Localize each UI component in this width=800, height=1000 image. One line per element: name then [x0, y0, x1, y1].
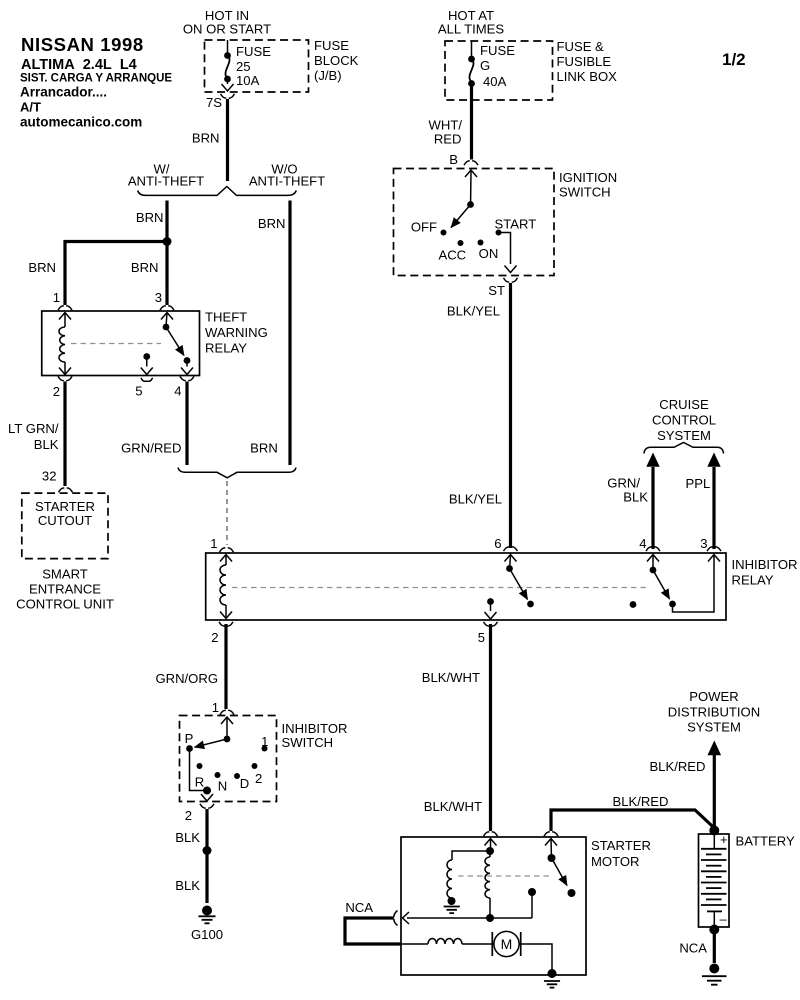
svg-text:DISTRIBUTION: DISTRIBUTION: [668, 705, 760, 720]
svg-text:6: 6: [494, 536, 501, 551]
wire BRN w/o anti-theft branch: [250, 201, 290, 466]
svg-text:automecanico.com: automecanico.com: [20, 115, 142, 130]
connector B: [449, 152, 478, 167]
svg-text:GRN/RED: GRN/RED: [121, 441, 181, 456]
starter motor armature inductor: [401, 939, 494, 945]
svg-text:2: 2: [211, 630, 218, 645]
svg-text:OFF: OFF: [411, 220, 437, 235]
svg-text:1: 1: [212, 700, 219, 715]
svg-text:START: START: [495, 217, 537, 232]
svg-text:Arrancador....: Arrancador....: [20, 85, 107, 100]
label STARTER CUTOUT: [35, 499, 95, 528]
svg-text:G: G: [480, 58, 490, 73]
svg-text:BLK/YEL: BLK/YEL: [447, 304, 500, 319]
svg-text:SIST. CARGA Y ARRANQUE: SIST. CARGA Y ARRANQUE: [20, 73, 172, 85]
svg-text:RELAY: RELAY: [732, 573, 774, 588]
svg-text:STARTER: STARTER: [35, 499, 95, 514]
wire GRN/ORG to inhibitor switch: [155, 624, 234, 715]
svg-text:+: +: [720, 832, 728, 847]
svg-text:NISSAN 1998: NISSAN 1998: [21, 34, 144, 55]
starter motor ground: [519, 944, 560, 988]
svg-text:BRN: BRN: [250, 441, 278, 456]
inhibitor switch contact 1: [261, 734, 268, 752]
wire PPL to cruise control: [686, 453, 721, 550]
svg-text:FUSIBLE: FUSIBLE: [557, 54, 612, 69]
label HOT IN ON OR START: [183, 8, 271, 37]
junction on BLK wire: [203, 846, 212, 855]
inhibitor relay pin 5 contact: [485, 598, 497, 619]
svg-text:THEFT: THEFT: [205, 310, 247, 325]
pin 3 label and connector: [155, 290, 174, 310]
ignition switch arm: [451, 170, 477, 228]
pin 4 connector: [174, 376, 194, 398]
svg-text:B: B: [449, 152, 458, 167]
svg-text:IGNITION: IGNITION: [559, 170, 617, 185]
wire BLK to ground: [175, 809, 207, 903]
brace split W/ and W/O anti-theft: [128, 162, 325, 196]
battery ground: [702, 964, 727, 985]
svg-text:CRUISE: CRUISE: [659, 397, 709, 412]
brace cruise control: [644, 443, 724, 454]
svg-text:BRN: BRN: [258, 216, 286, 231]
svg-text:1: 1: [210, 536, 217, 551]
title text NISSAN 1998: [20, 34, 172, 130]
inhibitor switch contact D: [234, 773, 249, 791]
svg-text:FUSE: FUSE: [480, 43, 515, 58]
fuse block (J/B) dashed box: [205, 40, 309, 92]
label IGNITION SWITCH: [559, 170, 617, 200]
svg-text:A/T: A/T: [20, 100, 41, 115]
svg-text:–: –: [720, 912, 728, 927]
svg-text:BLK: BLK: [175, 830, 200, 845]
svg-text:5: 5: [478, 630, 485, 645]
svg-text:ST: ST: [488, 283, 505, 298]
svg-text:3: 3: [155, 290, 162, 305]
wire BLK/RED starter to battery: [551, 794, 714, 831]
starter solenoid plunger line: [403, 888, 537, 924]
svg-text:BLK: BLK: [623, 490, 648, 505]
fuse 25 10A: [222, 40, 272, 91]
svg-text:2: 2: [255, 771, 262, 786]
svg-text:RED: RED: [434, 132, 462, 147]
junction node: [163, 237, 172, 246]
wire WHT/RED to ignition switch: [429, 84, 472, 160]
connector ST: [488, 278, 517, 298]
svg-text:STARTER: STARTER: [591, 838, 651, 853]
starter motor box: [401, 837, 586, 975]
brace merge GRN/RED and BRN: [178, 468, 296, 478]
svg-text:BLK/RED: BLK/RED: [612, 794, 668, 809]
inhibitor switch contact P: [185, 731, 194, 752]
starter switch: [545, 839, 576, 898]
svg-text:BRN: BRN: [28, 260, 56, 275]
wire BLK/YEL to inhibitor relay pin 6: [447, 283, 511, 548]
wire START to ST terminal: [499, 233, 517, 273]
ignition contact ON: [478, 240, 499, 262]
label THEFT WARNING RELAY: [205, 310, 268, 356]
wire NCA from battery: [679, 930, 714, 964]
wire BRN with anti-theft branch: [136, 201, 167, 306]
svg-text:LT GRN/: LT GRN/: [8, 421, 59, 436]
svg-text:SMART: SMART: [42, 567, 88, 582]
wire GRN/RED from theft relay pin 4: [121, 382, 187, 466]
svg-text:SWITCH: SWITCH: [282, 735, 334, 750]
svg-text:PPL: PPL: [686, 476, 711, 491]
connector 7S: [206, 94, 235, 110]
ignition switch dashed box: [394, 169, 555, 276]
svg-text:LINK BOX: LINK BOX: [557, 69, 618, 84]
starter hold-in coil: [485, 851, 494, 922]
connector starter motor S terminal: [484, 832, 498, 836]
svg-text:ALTIMA 2.4L L4: ALTIMA 2.4L L4: [21, 57, 137, 73]
svg-text:1: 1: [261, 734, 268, 749]
inhibitor relay spare contact dot: [630, 601, 637, 608]
fuse & fusible link box dashed box: [445, 41, 553, 100]
battery: [699, 832, 730, 927]
label POWER DISTRIBUTION SYSTEM: [668, 689, 760, 735]
wire BLK/WHT inhibitor relay pin 5 to starter: [422, 624, 491, 831]
svg-text:POWER: POWER: [689, 689, 738, 704]
fusible link G 40A: [468, 41, 515, 89]
inhibitor relay switch pins 4-3: [647, 555, 720, 613]
svg-text:CONTROL: CONTROL: [652, 413, 716, 428]
battery bottom junction: [709, 925, 719, 935]
label HOT AT ALL TIMES: [438, 8, 504, 37]
svg-text:FUSE &: FUSE &: [557, 39, 605, 54]
svg-text:R: R: [195, 775, 204, 790]
svg-text:D: D: [240, 776, 249, 791]
label CRUISE CONTROL SYSTEM: [652, 397, 716, 443]
svg-text:GRN/: GRN/: [607, 476, 640, 491]
svg-text:4: 4: [174, 384, 181, 399]
svg-text:WARNING: WARNING: [205, 325, 268, 340]
svg-text:10A: 10A: [236, 73, 260, 88]
starter motor M: [492, 931, 520, 956]
inhibitor switch dashed box: [180, 716, 277, 802]
starter coil ground: [444, 901, 460, 913]
svg-text:INHIBITOR: INHIBITOR: [282, 721, 348, 736]
svg-text:3: 3: [700, 536, 707, 551]
svg-text:1: 1: [53, 290, 60, 305]
inhibitor relay dashed link: [232, 587, 648, 589]
wire LT GRN/BLK to starter cutout: [8, 382, 65, 487]
connector pin 2 of inhibitor switch: [185, 804, 214, 823]
svg-text:BLK/RED: BLK/RED: [649, 759, 705, 774]
svg-text:GRN/ORG: GRN/ORG: [155, 671, 218, 686]
svg-text:BRN: BRN: [192, 131, 220, 146]
starter dashed link: [458, 875, 551, 877]
svg-text:BRN: BRN: [136, 210, 164, 225]
svg-text:NCA: NCA: [679, 941, 707, 956]
svg-text:MOTOR: MOTOR: [591, 854, 640, 869]
inhibitor relay K1 box: [206, 553, 726, 620]
starter pull-in coil: [447, 851, 490, 905]
svg-text:25: 25: [236, 59, 251, 74]
pin 1 label and connector: [53, 290, 72, 310]
svg-text:BLOCK: BLOCK: [314, 53, 359, 68]
label FUSE & FUSIBLE LINK BOX: [557, 39, 618, 84]
svg-text:2: 2: [53, 384, 60, 399]
pin 2 label and connector: [211, 622, 233, 645]
svg-text:BLK: BLK: [34, 437, 59, 452]
wire BLK/RED to power distribution system: [649, 741, 721, 831]
connector NCA at starter motor: [345, 900, 397, 926]
label INHIBITOR RELAY: [732, 557, 798, 588]
svg-text:P: P: [185, 731, 194, 746]
svg-text:4: 4: [639, 536, 646, 551]
theft relay pin 5 contact: [135, 353, 153, 398]
label STARTER MOTOR: [591, 838, 651, 869]
svg-text:NCA: NCA: [345, 900, 373, 915]
svg-text:40A: 40A: [483, 74, 507, 89]
svg-text:32: 32: [42, 469, 57, 484]
svg-text:SYSTEM: SYSTEM: [687, 720, 741, 735]
ignition contact START: [495, 217, 537, 236]
theft warning relay U1 box: [42, 311, 200, 376]
svg-text:BATTERY: BATTERY: [736, 834, 795, 849]
ignition contact ACC: [438, 240, 466, 263]
svg-text:ANTI-THEFT: ANTI-THEFT: [128, 174, 204, 189]
svg-text:2: 2: [185, 808, 192, 823]
theft relay coil pins 1-2: [59, 313, 71, 375]
svg-text:BLK/WHT: BLK/WHT: [422, 670, 480, 685]
svg-text:M: M: [501, 936, 513, 952]
svg-text:N: N: [218, 779, 227, 794]
svg-text:ON: ON: [479, 246, 499, 261]
svg-text:ANTI-THEFT: ANTI-THEFT: [249, 174, 325, 189]
svg-text:INHIBITOR: INHIBITOR: [732, 557, 798, 572]
label INHIBITOR SWITCH: [282, 721, 348, 750]
inhibitor switch contact N: [215, 772, 228, 794]
svg-text:WHT/: WHT/: [429, 118, 463, 133]
svg-text:ON OR START: ON OR START: [183, 22, 271, 37]
svg-text:RELAY: RELAY: [205, 341, 247, 356]
inhibitor switch arm: [195, 717, 234, 747]
label FUSE BLOCK (J/B): [314, 38, 359, 83]
dashed wire to inhibitor relay pin 1: [220, 481, 234, 552]
svg-text:ACC: ACC: [438, 248, 466, 263]
svg-text:SWITCH: SWITCH: [559, 185, 611, 200]
pin 4 label and connector: [639, 536, 660, 551]
inhibitor switch contact R: [195, 763, 204, 790]
inhibitor switch contact 2: [252, 763, 263, 786]
theft relay switch pins 3-4: [161, 313, 193, 375]
svg-text:CONTROL UNIT: CONTROL UNIT: [16, 597, 114, 612]
battery top junction: [709, 826, 719, 836]
connector starter motor B terminal: [544, 832, 558, 836]
inhibitor relay coil pins 1-2: [220, 555, 232, 619]
ground G100: [191, 906, 223, 943]
pin 5 label and connector: [478, 622, 498, 645]
svg-text:BLK/WHT: BLK/WHT: [424, 799, 482, 814]
svg-text:BLK: BLK: [175, 878, 200, 893]
pin 6 label and connector: [494, 536, 517, 551]
pin 3 label and connector: [700, 536, 721, 551]
wire NCA loop: [345, 918, 401, 944]
svg-text:SYSTEM: SYSTEM: [657, 428, 711, 443]
pin 2 connector: [53, 376, 72, 399]
label SMART ENTRANCE CONTROL UNIT: [16, 567, 114, 612]
starter solenoid input: [485, 839, 497, 856]
svg-text:ALL TIMES: ALL TIMES: [438, 22, 504, 37]
svg-text:FUSE: FUSE: [314, 38, 349, 53]
svg-text:CUTOUT: CUTOUT: [38, 513, 92, 528]
theft relay dashed link: [71, 343, 161, 345]
ignition contact OFF: [411, 220, 447, 236]
connector 32 at starter cutout: [59, 488, 73, 492]
svg-text:ENTRANCE: ENTRANCE: [29, 582, 101, 597]
wire P to pin 2 of inhibitor switch: [190, 749, 214, 802]
starter cutout dashed box: [22, 493, 108, 558]
svg-text:7S: 7S: [206, 95, 222, 110]
svg-text:BLK/YEL: BLK/YEL: [449, 492, 502, 507]
svg-text:FUSE: FUSE: [236, 44, 271, 59]
inhibitor relay switch pins 6-5: [505, 555, 534, 608]
wire BRN to theft relay pin 1: [28, 242, 167, 306]
svg-text:1/2: 1/2: [722, 50, 746, 69]
svg-text:(J/B): (J/B): [314, 68, 342, 83]
wire GRN/BLK to cruise control: [607, 453, 659, 550]
svg-text:5: 5: [135, 384, 142, 399]
svg-text:G100: G100: [191, 927, 223, 942]
svg-text:BRN: BRN: [131, 260, 159, 275]
wire BRN from fuse block: [192, 99, 228, 181]
